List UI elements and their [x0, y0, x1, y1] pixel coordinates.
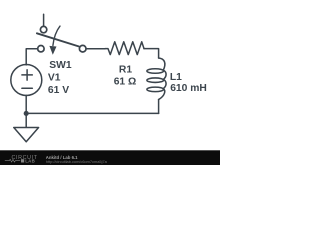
wire: switch pole to voltage source top — [26, 49, 37, 65]
wire: voltage source bottom to ground junction — [25, 95, 27, 113]
node: junction dot at ground — [24, 111, 29, 116]
wire: switch right contact to resistor R1 — [86, 48, 105, 50]
watermark logo LAB block — [21, 159, 24, 162]
svg-text:L1: L1 — [170, 72, 182, 83]
voltage source V1 minus sign — [22, 87, 32, 89]
inductor L1 coil serpentine — [159, 58, 166, 100]
voltage source V1 plus sign — [22, 70, 32, 80]
svg-text:610 mH: 610 mH — [170, 83, 207, 94]
watermark logo resistor squiggle — [5, 159, 20, 162]
wire: bottom rail from junction to inductor branch — [26, 112, 158, 114]
watermark bar — [0, 150, 220, 165]
inductor L1 loop 3 — [147, 87, 164, 92]
switch SW1 left pole contact circle — [38, 46, 44, 52]
wire: switch SW1 top throw stub — [43, 14, 45, 26]
wire: resistor R1 to top-right corner down to inductor — [144, 49, 159, 58]
switch SW1 top throw contact circle — [40, 26, 46, 32]
svg-text:LAB: LAB — [25, 159, 35, 164]
switch SW1 blade — [37, 33, 79, 46]
svg-text:SW1: SW1 — [49, 60, 72, 71]
inductor L1 loop 1 — [147, 69, 164, 74]
voltage source V1 circle — [11, 65, 42, 96]
svg-text:R1: R1 — [119, 65, 132, 76]
inductor L1 loop 2 — [147, 78, 164, 83]
svg-text:61 V: 61 V — [48, 85, 69, 96]
svg-text:http://circuitlab.com/c6om7cma: http://circuitlab.com/c6om7cma5j7a — [46, 159, 108, 164]
ground symbol — [14, 113, 39, 141]
switch SW1 actuation arrow curve — [53, 26, 60, 45]
switch SW1 actuation arrowhead — [49, 46, 56, 55]
svg-text:V1: V1 — [48, 73, 61, 84]
switch SW1 right throw contact circle — [79, 45, 86, 52]
wire: inductor L1 bottom to rail — [158, 100, 160, 114]
resistor R1 zigzag — [105, 42, 144, 55]
svg-text:61 Ω: 61 Ω — [114, 77, 137, 88]
